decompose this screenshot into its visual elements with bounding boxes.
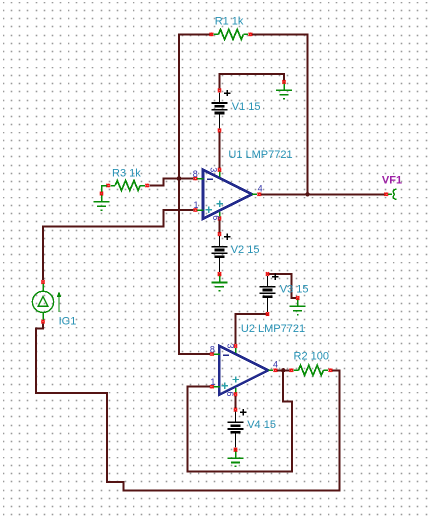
ground for V2	[212, 272, 228, 291]
svg-text:6: 6	[211, 215, 221, 220]
svg-text:V2 15: V2 15	[231, 244, 260, 256]
U1 plus center	[216, 201, 222, 207]
resistor R3	[106, 181, 149, 191]
svg-text:3: 3	[208, 167, 218, 172]
U1 pin 6 stub	[219, 212, 221, 217]
ground for V1	[276, 80, 292, 99]
op-amp U1	[203, 170, 252, 219]
svg-text:VF1: VF1	[382, 174, 402, 186]
U2 pin 4 stub	[268, 369, 273, 371]
svg-text:IG1: IG1	[59, 316, 77, 328]
wire U1 pin1 to IG1 top	[43, 210, 194, 280]
svg-text:U2 LMP7721: U2 LMP7721	[241, 323, 305, 335]
svg-text:V3 15: V3 15	[280, 283, 309, 295]
U2 pin 6 stub	[235, 388, 237, 393]
U1 pin 8 stub	[197, 178, 203, 180]
U1 pin 1 stub	[197, 209, 203, 211]
wire V3 bottom to U2 pin3	[236, 314, 268, 344]
U2 plus center	[233, 376, 239, 382]
wire U2 pin6 to V4	[235, 396, 237, 408]
IG1 arrow	[58, 295, 60, 312]
U1 minus sign	[207, 178, 213, 180]
svg-text:V4 15: V4 15	[247, 419, 276, 431]
wire IG1 bottom loop to R2 right	[36, 323, 339, 490]
wire junction to U1 pin8	[179, 178, 194, 180]
battery V1	[212, 89, 231, 133]
svg-text:4: 4	[258, 184, 263, 194]
svg-text:8: 8	[193, 169, 198, 179]
svg-text:8: 8	[210, 344, 215, 354]
battery V3	[260, 272, 279, 316]
wire U2 output to R2	[277, 369, 289, 371]
U1 pin 3 stub	[219, 172, 221, 177]
svg-text:R3 1k: R3 1k	[112, 167, 141, 179]
junction dot C (U2 output node)	[281, 368, 285, 372]
U2 plus input	[222, 383, 228, 389]
current source IG1	[32, 280, 61, 323]
svg-text:V1 15: V1 15	[232, 101, 261, 113]
U1 plus input	[205, 206, 211, 212]
svg-text:3: 3	[226, 344, 236, 349]
wire R1 left + feedback vertical to U2 pin8	[179, 34, 211, 354]
wire V1 top to ground	[220, 74, 285, 88]
VF1 terminal	[384, 189, 396, 199]
resistor R1	[210, 29, 253, 39]
resistor R2	[290, 365, 333, 375]
svg-text:R2 100: R2 100	[294, 350, 329, 362]
svg-text:R1 1k: R1 1k	[215, 15, 244, 27]
wire V3 top to ground	[268, 274, 296, 298]
svg-text:4: 4	[273, 360, 278, 370]
wire V1 bottom to U1 pin3	[219, 132, 221, 169]
U2 pin 8 stub	[214, 353, 220, 355]
wire U1 pin6 to V2	[219, 220, 221, 232]
battery V4	[228, 408, 247, 452]
U1 pin 4 stub	[252, 193, 257, 195]
U2 pin 3 stub	[235, 348, 237, 353]
wire R1 right + vertical to output node	[250, 34, 307, 194]
wire R3 left to ground	[102, 186, 108, 193]
wire U1 output to VF1	[261, 193, 384, 195]
op-amp U2	[219, 346, 268, 395]
U2 minus sign	[223, 354, 229, 356]
junction dot B (output node)	[305, 192, 309, 196]
svg-text:1: 1	[210, 377, 215, 387]
svg-text:1: 1	[194, 200, 199, 210]
wire R3 right to junction	[150, 179, 179, 186]
ground for V4	[228, 448, 244, 467]
ground for V3	[290, 296, 306, 315]
wire U2 feedback box to pin1	[188, 370, 293, 471]
svg-text:6: 6	[225, 391, 235, 396]
battery V2	[212, 232, 231, 276]
svg-text:U1 LMP7721: U1 LMP7721	[228, 149, 292, 161]
ground for R3	[94, 192, 110, 211]
U2 pin 1 stub	[214, 386, 220, 388]
junction dot A (pin8 node)	[177, 176, 181, 180]
